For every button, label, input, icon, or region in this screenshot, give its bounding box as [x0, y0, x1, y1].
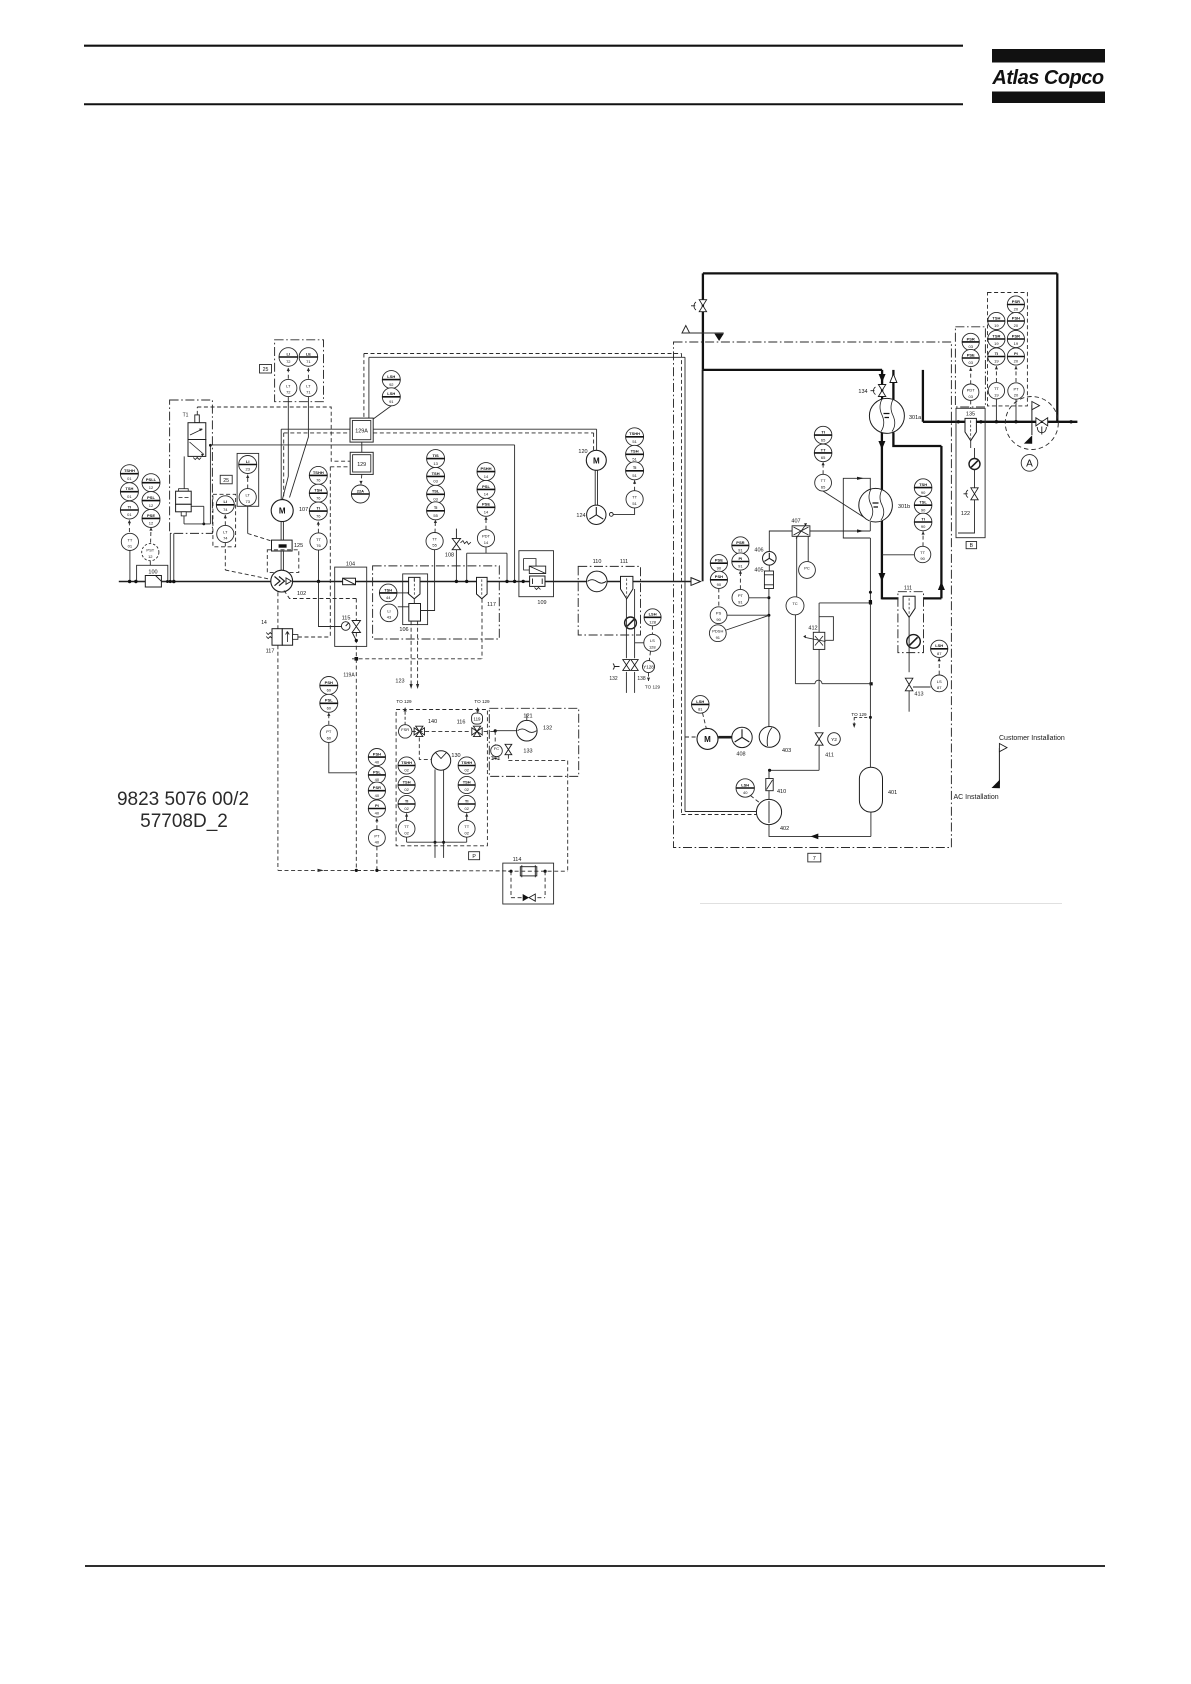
wire valve to regulator: [183, 456, 185, 488]
svg-text:110: 110: [593, 559, 602, 565]
solenoid Y128: [643, 661, 655, 673]
switch LSH 92: [382, 371, 400, 389]
switch LS 87: [931, 675, 948, 692]
signal 02b: [466, 813, 468, 820]
capillary LT72 to motor area: [282, 397, 288, 500]
signal TI-TT: [128, 520, 130, 532]
svg-text:76: 76: [316, 513, 321, 518]
svg-text:119: 119: [474, 717, 482, 722]
svg-text:412: 412: [808, 625, 817, 631]
switch LSH 91: [382, 388, 400, 406]
drain circle 111: [625, 617, 637, 629]
signal 140 to 130: [419, 738, 431, 760]
signal LT72 up: [287, 368, 289, 379]
svg-text:407: 407: [791, 519, 800, 525]
svg-text:LE: LE: [306, 351, 311, 356]
level box 25 (LT72/71): [275, 340, 324, 402]
svg-text:92: 92: [389, 382, 394, 387]
valve 134: [858, 385, 885, 397]
Atlas Copco logo: [991, 49, 1105, 103]
silencer funnel 135: [965, 418, 976, 440]
transmitter TT 02b: [458, 820, 475, 837]
svg-text:TSH: TSH: [314, 488, 322, 493]
svg-text:22A: 22A: [357, 488, 364, 493]
frame label P: [469, 852, 480, 860]
instrument PSR 03: [962, 333, 979, 350]
instrument TI 55: [427, 502, 445, 520]
heater 410: [766, 779, 786, 796]
svg-text:03: 03: [433, 497, 438, 502]
svg-text:LI: LI: [287, 351, 291, 356]
svg-text:PSH: PSH: [1012, 315, 1020, 320]
wire fan-muffler: [768, 565, 770, 571]
412 side loop: [819, 617, 833, 641]
flag marker at outlet: [1024, 402, 1040, 444]
svg-text:TSHH: TSHH: [124, 468, 135, 473]
vent Y symbol: [1037, 427, 1046, 435]
svg-text:LSH: LSH: [387, 374, 395, 379]
transmitter PT 60: [320, 725, 337, 742]
TO129 left label: [396, 699, 412, 725]
transmitter TT 76: [310, 533, 327, 550]
transmitter TT 19: [988, 383, 1004, 399]
svg-text:128: 128: [649, 644, 656, 649]
signal line to 129A: [197, 407, 350, 461]
svg-text:PSLL: PSLL: [146, 477, 157, 482]
instrument TI 76: [309, 502, 327, 520]
wire LSH to 129A: [373, 406, 391, 419]
signal TI-TT 55: [434, 520, 436, 533]
svg-text:65: 65: [821, 455, 826, 460]
svg-text:20: 20: [1014, 307, 1019, 312]
svg-text:Y2: Y2: [831, 737, 837, 743]
svg-text:76: 76: [316, 478, 321, 483]
svg-text:76: 76: [316, 543, 321, 548]
vent valve on riser: [691, 300, 707, 312]
instrument TSH 51: [626, 445, 644, 463]
wire 402 bottom out: [769, 825, 871, 837]
instrument TSHH 02: [398, 757, 415, 774]
svg-text:91: 91: [389, 399, 394, 404]
svg-text:P: P: [472, 854, 476, 860]
svg-text:140: 140: [428, 719, 437, 725]
col40 PSHH: [368, 782, 385, 799]
signal 102 to 119A line: [284, 591, 356, 599]
svg-text:LS: LS: [937, 679, 942, 684]
LI73 level box: [237, 453, 259, 506]
switch LSH 81: [692, 696, 710, 714]
signal PI-PT 20: [1015, 366, 1017, 382]
bypass valve 110: [587, 559, 608, 592]
bypass valve 407: [791, 519, 809, 539]
frame label 25b: [220, 475, 232, 484]
instrument TSH 19: [988, 312, 1005, 329]
controller box 129: [350, 452, 373, 474]
svg-text:60: 60: [327, 735, 332, 740]
wires 407 down: [796, 536, 798, 596]
svg-text:19: 19: [994, 341, 999, 346]
svg-text:115: 115: [342, 616, 351, 622]
svg-text:72: 72: [286, 390, 291, 395]
frame label 7: [808, 853, 821, 862]
cooling fan 124: [587, 505, 606, 524]
svg-text:LSH: LSH: [741, 782, 749, 787]
drain circle 111b: [907, 635, 921, 649]
transmitter LT 71: [300, 379, 317, 396]
inlet filter 100: [145, 570, 161, 588]
pilot loop wires: [209, 445, 211, 524]
dryer valve 412: [803, 625, 825, 649]
svg-text:71: 71: [306, 359, 311, 364]
wire TT90 stub: [882, 554, 915, 556]
svg-text:90: 90: [921, 524, 926, 529]
svg-text:TI: TI: [633, 465, 637, 470]
svg-text:TO 129: TO 129: [474, 699, 490, 704]
signal 60: [328, 713, 330, 725]
svg-text:129A: 129A: [355, 429, 368, 435]
svg-text:PT: PT: [374, 833, 380, 838]
signal pair down right side: [681, 354, 683, 815]
outlet valve: [1036, 418, 1048, 426]
transmitter LT 73: [239, 489, 256, 506]
svg-text:01: 01: [128, 544, 133, 549]
signal to fan motor: [373, 428, 596, 430]
svg-text:TC: TC: [792, 601, 797, 606]
svg-text:125: 125: [294, 543, 303, 549]
svg-text:40: 40: [375, 759, 380, 764]
svg-text:25: 25: [223, 478, 229, 484]
instrument PSH 20: [1007, 312, 1024, 329]
oil sump 106: [399, 604, 420, 634]
svg-text:02: 02: [464, 806, 469, 811]
wire 108 to line: [455, 550, 457, 582]
instrument TISL 03: [427, 485, 445, 503]
instrument dashed box top right: [988, 293, 1028, 406]
svg-text:124: 124: [576, 513, 585, 519]
signal 117 down to bus: [277, 645, 279, 870]
instrument PSE 90: [710, 555, 727, 572]
oil drain signal horizontal: [352, 658, 482, 660]
coupling 125: [272, 540, 304, 551]
svg-text:A: A: [1026, 459, 1033, 470]
wire 411 down: [818, 745, 820, 770]
hx circle 121: [517, 714, 553, 755]
pump motor M: [697, 728, 718, 749]
svg-text:TSH: TSH: [919, 482, 927, 487]
TO129 right label: [474, 699, 490, 713]
instrument TSHH 01: [120, 465, 138, 483]
svg-text:Atlas Copco: Atlas Copco: [991, 67, 1103, 89]
wire 121 left: [495, 730, 516, 732]
wire 407 left to fan: [769, 531, 792, 552]
indicator LE 71: [299, 348, 318, 367]
instrument TI 90a: [914, 479, 932, 497]
svg-text:PSL: PSL: [147, 495, 155, 500]
top discharge line: [703, 272, 1057, 274]
instrument TI 65: [814, 426, 832, 444]
svg-text:71: 71: [306, 390, 311, 395]
switch LS 128: [644, 634, 661, 651]
signal 129 to 22A: [360, 474, 363, 484]
svg-text:40: 40: [375, 840, 380, 845]
svg-text:132: 132: [609, 676, 618, 682]
svg-text:M: M: [279, 507, 286, 516]
water sep funnel 111: [621, 576, 633, 598]
wire 412 down: [818, 649, 820, 727]
switch GP 60a: [320, 677, 338, 695]
silencer box 135: [956, 408, 985, 537]
svg-text:PDT: PDT: [967, 388, 976, 393]
signal pair across top: [364, 353, 682, 355]
svg-text:91: 91: [738, 548, 743, 553]
col40 PSL: [368, 766, 385, 783]
separator bottom line to cooler: [881, 433, 883, 600]
svg-text:25: 25: [263, 367, 269, 373]
condensate vessel 402: [756, 799, 789, 832]
svg-text:PI: PI: [739, 556, 743, 561]
svg-text:87: 87: [937, 651, 942, 656]
switch PDSH 91: [709, 625, 726, 642]
instrument PSL 14: [477, 480, 495, 498]
svg-text:FSR: FSR: [401, 727, 409, 732]
svg-text:TSH: TSH: [631, 449, 639, 454]
svg-text:03: 03: [968, 394, 973, 399]
svg-text:141: 141: [491, 756, 500, 762]
svg-text:M: M: [704, 735, 711, 744]
svg-text:133: 133: [523, 749, 532, 755]
signal LSH-LS 128: [651, 626, 653, 635]
svg-text:TO 129: TO 129: [645, 685, 661, 690]
faint fold line: [700, 903, 1062, 905]
svg-text:19: 19: [1014, 341, 1019, 346]
instrument TI 90b: [914, 496, 932, 514]
svg-text:40: 40: [375, 793, 380, 798]
svg-text:72: 72: [286, 359, 291, 364]
capillary diag to coupling: [248, 534, 272, 542]
signal pair 129A to fan motor: [281, 428, 350, 430]
controller PC: [799, 562, 816, 579]
thermostat valve 109: [524, 559, 546, 590]
401 bottom pipe: [870, 812, 872, 836]
svg-text:413: 413: [914, 692, 923, 698]
check valve loop 114: [510, 871, 512, 898]
wire LSH81: [703, 713, 707, 728]
gearbox dashed box: [267, 550, 299, 573]
wire 407 right to cooler: [810, 530, 870, 532]
vent branch vertical: [702, 273, 704, 370]
wire TSH44 stub: [397, 592, 409, 594]
svg-text:TI: TI: [821, 430, 825, 435]
svg-text:03: 03: [968, 360, 973, 365]
indicator LI 23: [239, 456, 257, 474]
instrument TI 01: [120, 501, 138, 519]
wire PT20 to line: [1015, 399, 1017, 422]
svg-text:90: 90: [920, 556, 925, 561]
transmitter TT 90: [914, 546, 930, 562]
svg-text:43: 43: [387, 615, 392, 620]
svg-text:55: 55: [433, 513, 438, 518]
svg-text:134: 134: [858, 389, 867, 395]
wire LI43 stub: [398, 606, 410, 608]
svg-text:PT: PT: [1013, 386, 1019, 391]
svg-text:Customer Installation: Customer Installation: [999, 735, 1065, 742]
wire to unload valve 115: [319, 581, 342, 626]
dryer water sep funnel 111b: [903, 596, 915, 617]
package boundary dash-dot enclosure: [674, 342, 952, 848]
valve 411: [815, 733, 823, 745]
svg-text:Y128: Y128: [643, 665, 654, 670]
svg-text:PDT: PDT: [482, 534, 491, 539]
svg-text:90: 90: [717, 565, 722, 570]
signal TI-TT 51: [634, 480, 636, 490]
TT02 connect bar: [406, 837, 408, 842]
svg-text:12: 12: [149, 521, 154, 526]
signal 116 to AC box: [484, 730, 496, 732]
instrument PSE 12: [142, 509, 160, 527]
svg-text:60: 60: [327, 688, 332, 693]
svg-text:TSH: TSH: [463, 779, 471, 784]
svg-text:51: 51: [632, 501, 637, 506]
fan shaft: [594, 470, 596, 505]
svg-text:130: 130: [451, 753, 460, 759]
signal TI-TT 76: [317, 521, 319, 533]
atmos arrow: [714, 334, 723, 341]
wire funnel to line: [413, 577, 415, 581]
dashed vent circle: [1005, 397, 1058, 450]
svg-text:TT: TT: [432, 537, 437, 542]
oil return dashed pair 123: [410, 621, 412, 684]
svg-text:65: 65: [821, 484, 826, 489]
timer 119: [472, 713, 483, 724]
drain valve A: [623, 660, 630, 671]
svg-text:02: 02: [404, 806, 409, 811]
instrument PSE 03: [962, 349, 979, 366]
svg-text:14: 14: [484, 540, 489, 545]
wire TT19 to line: [995, 399, 997, 422]
regen fan 406: [763, 552, 777, 566]
footer rule: [85, 1565, 1105, 1567]
svg-text:408: 408: [736, 752, 745, 758]
control line T1 to 129A vertical: [210, 444, 514, 446]
svg-text:13: 13: [433, 461, 438, 466]
svg-text:74: 74: [223, 536, 228, 541]
svg-text:TT: TT: [632, 495, 637, 500]
svg-text:PSH: PSH: [715, 574, 723, 579]
svg-text:100: 100: [148, 570, 157, 576]
svg-text:410: 410: [777, 789, 786, 795]
svg-text:132: 132: [543, 726, 552, 732]
switch GP 60b: [320, 694, 338, 712]
svg-text:135: 135: [966, 412, 975, 418]
wire PST to filter: [149, 561, 151, 565]
svg-text:109: 109: [537, 600, 546, 606]
svg-text:LT: LT: [306, 383, 311, 388]
TO129 stub at dryer: [851, 712, 870, 728]
element 22A: [351, 485, 369, 503]
transmitter PDT 03: [963, 384, 979, 400]
switch LSH 128: [644, 609, 661, 626]
svg-text:12: 12: [148, 554, 153, 559]
indicator A: [1021, 455, 1038, 472]
svg-text:TSH: TSH: [125, 486, 133, 491]
bus through 114: [508, 870, 568, 872]
svg-text:40: 40: [743, 790, 748, 795]
svg-text:120: 120: [578, 449, 587, 455]
svg-text:9823 5076 00/2: 9823 5076 00/2: [117, 789, 249, 810]
transmitter PST 12: [142, 544, 159, 561]
wire to LS87: [913, 686, 931, 688]
wire 412 top loop: [819, 602, 870, 604]
condensate signal bus arrow: [278, 869, 320, 871]
wire TT76 to line: [318, 550, 320, 581]
svg-text:01: 01: [127, 512, 132, 517]
controller TC: [786, 597, 804, 615]
svg-text:TSHH: TSHH: [461, 760, 472, 765]
transmitter TT 01: [121, 533, 138, 550]
signal 02: [406, 813, 408, 820]
solenoid Y2: [828, 733, 841, 746]
instrument TI 65b: [814, 444, 832, 462]
unloader valve T1: [183, 413, 206, 460]
svg-text:PT: PT: [326, 729, 332, 734]
filter in 114: [520, 865, 537, 877]
instrument PSR 91: [732, 537, 749, 554]
wire TT51 sensor: [613, 508, 634, 515]
instrument PI 20: [1007, 348, 1024, 365]
svg-text:57708D_2: 57708D_2: [140, 811, 228, 832]
svg-text:TSH: TSH: [403, 779, 411, 784]
instrument TISH 03: [427, 467, 445, 485]
instrument TSH 44: [379, 584, 397, 602]
instrument TSH 02b: [458, 776, 475, 793]
cooler vessel 130: [431, 751, 460, 770]
instrument TSH 02: [398, 776, 415, 793]
transmitter TT 02: [398, 820, 415, 837]
svg-text:PSR: PSR: [967, 336, 975, 341]
svg-text:51: 51: [632, 457, 637, 462]
customer flag marker: [992, 735, 1065, 788]
separator second bottom line: [893, 433, 941, 447]
oil vessel dash-dot box: [373, 566, 500, 639]
drawing number text: [117, 789, 249, 832]
svg-text:LI: LI: [387, 608, 390, 613]
filter housing rect: [137, 565, 168, 581]
signal LS-LSH 87: [938, 658, 940, 675]
transmitter TT 65: [815, 474, 832, 491]
main air inlet line: [119, 581, 691, 583]
svg-text:90: 90: [717, 582, 722, 587]
svg-text:90: 90: [921, 507, 926, 512]
svg-text:TT: TT: [821, 447, 826, 452]
svg-text:19: 19: [994, 359, 999, 364]
PDT14 tap wires: [485, 547, 487, 553]
signal 117 right: [298, 636, 330, 638]
frame label B: [966, 542, 977, 550]
svg-text:106: 106: [399, 627, 408, 633]
svg-text:402: 402: [780, 826, 789, 832]
svg-text:LI: LI: [224, 499, 228, 504]
svg-text:PSHH: PSHH: [480, 466, 491, 471]
arrow into riser: [691, 578, 701, 586]
transmitter TT 51: [626, 491, 643, 508]
drain valve B: [631, 660, 638, 671]
svg-text:91: 91: [738, 564, 743, 569]
instrument TSHH 02b: [458, 757, 475, 774]
main outlet line: [923, 421, 1078, 423]
wire PT40 down: [376, 846, 378, 870]
svg-text:02: 02: [464, 830, 469, 835]
svg-text:20: 20: [1014, 359, 1019, 364]
